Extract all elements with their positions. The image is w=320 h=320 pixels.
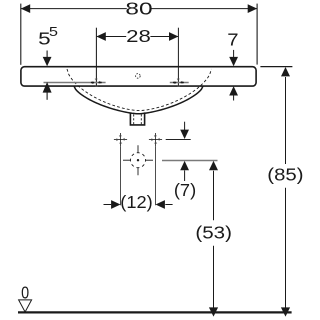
deck crosshair axis line right (gray) <box>170 82 189 84</box>
dimension 80 extension line right <box>256 4 258 65</box>
dimension (12) right arrow <box>156 200 165 209</box>
dimension (7) upper arrow (down) <box>184 122 186 131</box>
dimension (53) upper arrow (up) <box>209 161 218 170</box>
svg-text:0: 0 <box>21 282 29 302</box>
dimension 80 extension line left <box>20 4 22 65</box>
svg-text:28: 28 <box>126 26 151 46</box>
dimension 80 arrow right <box>248 4 257 13</box>
drain outlet box <box>130 112 144 125</box>
svg-text:(53): (53) <box>195 222 232 242</box>
tap hole dashed circle <box>136 74 141 79</box>
deck tap hole crosshair right <box>173 79 184 86</box>
drain outlet box inner dashed walls <box>133 114 135 124</box>
bowl outer visible arc <box>74 86 203 114</box>
deck top extension line right <box>260 66 292 68</box>
deck crosshair axis line left (gray) <box>44 82 106 84</box>
dimension 5^5 lower arrow (up) <box>43 82 52 93</box>
drain axis line (gray) <box>162 160 218 162</box>
deck tap hole crosshair left <box>91 79 102 86</box>
dimension 7 lower arrow (up) <box>229 86 238 95</box>
fixing hole crosshair right <box>149 133 162 146</box>
dimension (12) left arrow <box>104 204 112 206</box>
extension line fixing hole left <box>120 146 122 205</box>
dimension (85) line <box>285 77 287 308</box>
extension line fixing hole right <box>155 146 157 205</box>
dimension 28 extension line left <box>95 28 97 87</box>
fixing hole axis short line <box>166 139 191 141</box>
dimension 7 upper arrow (down) <box>233 50 235 58</box>
dimension (53) line <box>213 171 215 308</box>
dimension 80 arrow left <box>21 4 30 13</box>
floor datum triangle <box>19 300 32 312</box>
bowl inner rim hidden dashed arc <box>67 69 212 111</box>
svg-text:5: 5 <box>49 24 58 39</box>
drain connection crosshair <box>123 145 153 175</box>
dimension (7) lower arrow (up) <box>180 161 189 170</box>
dimension 28 extension line right <box>177 28 179 87</box>
dimension 28 line <box>97 36 178 38</box>
svg-text:7: 7 <box>227 29 238 49</box>
svg-text:(12): (12) <box>120 192 153 212</box>
washbasin deck outline <box>21 67 256 86</box>
svg-text:80: 80 <box>125 0 153 18</box>
dimension 5^5 upper arrow (down) <box>46 51 48 59</box>
dimension (53) lower arrow (down) <box>209 307 218 316</box>
svg-text:(7): (7) <box>174 180 196 200</box>
fixing hole crosshair left <box>114 133 127 146</box>
svg-text:(85): (85) <box>267 164 303 184</box>
dimension (85) upper arrow (up) <box>281 67 290 76</box>
dimension 80 line <box>21 8 257 10</box>
dimension 28 arrow right <box>169 32 178 41</box>
dimension (85) lower arrow (down) <box>281 307 290 316</box>
floor line <box>18 311 292 313</box>
dimension 28 arrow left <box>96 32 105 41</box>
